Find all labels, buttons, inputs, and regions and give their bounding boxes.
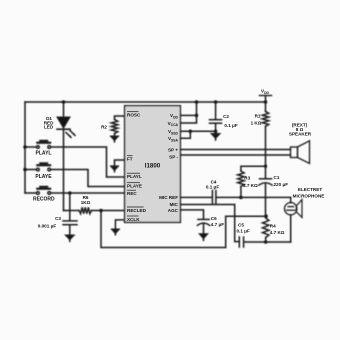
pushbutton PLAYL — [25, 140, 51, 149]
svg-text:0.1 μF: 0.1 μF — [206, 185, 219, 190]
svg-text:RECORD: RECORD — [33, 197, 55, 203]
wire XCLK to ground — [115, 220, 124, 229]
ground C2 — [212, 134, 220, 140]
svg-text:4.7 KΩ: 4.7 KΩ — [243, 183, 258, 188]
node C2 VSS junction — [214, 130, 218, 134]
svg-text:4.7 μF: 4.7 μF — [211, 222, 224, 227]
svg-text:SPEAKER: SPEAKER — [289, 131, 312, 136]
svg-text:R2: R2 — [101, 125, 107, 130]
capacitor C1 — [259, 166, 272, 216]
ground C3 — [66, 235, 74, 241]
wire bottom MIC net — [101, 211, 267, 248]
wire mic bottom riser — [290, 215, 292, 242]
resistor R1 — [262, 102, 268, 166]
svg-text:REC: REC — [127, 191, 137, 196]
wire PLAYL to pin — [51, 147, 125, 177]
svg-text:XCLK: XCLK — [127, 217, 140, 222]
svg-text:MIC: MIC — [170, 202, 179, 207]
svg-text:220 μF: 220 μF — [274, 182, 289, 187]
svg-text:C2: C2 — [223, 114, 229, 119]
node rail PLAYE — [23, 168, 27, 172]
node C2 top — [214, 100, 218, 104]
power VDD symbol — [260, 96, 272, 103]
wire MIC REF to microphone — [216, 197, 291, 202]
wire VSSD pin — [180, 130, 215, 132]
svg-text:FT: FT — [127, 157, 133, 162]
node VDD pin junction — [195, 114, 199, 118]
resistor R3 — [238, 166, 266, 197]
svg-text:PLAYL: PLAYL — [36, 151, 52, 157]
node X junction — [264, 165, 267, 168]
wire VCCA pin — [180, 115, 196, 123]
svg-text:R1: R1 — [255, 113, 261, 118]
svg-text:RECLED: RECLED — [127, 208, 147, 213]
wire MIC pin — [180, 205, 239, 242]
svg-text:SP -: SP - — [169, 154, 178, 159]
svg-text:ELECTRET: ELECTRET — [298, 187, 322, 192]
IC U1 I1800 — [125, 106, 181, 223]
wire VDD pin riser — [180, 114, 196, 116]
svg-text:C3: C3 — [55, 216, 61, 221]
wire AGC pin — [180, 210, 203, 219]
capacitor C3 — [63, 193, 77, 235]
svg-text:1KΩ: 1KΩ — [81, 200, 91, 205]
svg-text:MIC REF: MIC REF — [159, 195, 178, 200]
node R6 / RECLED junction — [99, 209, 103, 213]
wire VSSA pin — [180, 131, 190, 138]
svg-text:PLAYL: PLAYL — [127, 174, 142, 179]
ground R2 — [111, 136, 118, 142]
svg-text:AGC: AGC — [168, 208, 179, 213]
wire SP- — [180, 154, 290, 156]
svg-text:PLAYE: PLAYE — [35, 174, 52, 180]
node R4 bottom junction — [264, 240, 268, 244]
wire PLAYE to pin — [51, 170, 125, 187]
capacitor C4 — [212, 191, 216, 204]
wire left rail — [24, 102, 26, 193]
resistor R6 — [64, 207, 125, 213]
resistor R2 — [111, 116, 124, 136]
node REC / C3 junction — [68, 191, 72, 195]
wire RECORD to REC pin — [51, 192, 125, 194]
svg-text:PLAYE: PLAYE — [127, 184, 142, 189]
node R3 bottom junction — [239, 196, 243, 200]
ground C6 — [200, 234, 208, 240]
svg-text:ROSC: ROSC — [127, 113, 141, 118]
node VSSD junction — [189, 130, 193, 134]
ground FT — [111, 166, 118, 172]
node R4 top junction — [264, 214, 268, 218]
svg-text:C5: C5 — [238, 222, 244, 227]
svg-text:C1: C1 — [274, 175, 280, 180]
svg-text:1 KΩ: 1 KΩ — [251, 120, 262, 125]
svg-text:R4: R4 — [270, 223, 276, 228]
node rail PLAYL — [23, 145, 27, 149]
svg-text:MICROPHONE: MICROPHONE — [293, 193, 325, 198]
svg-text:SP +: SP + — [168, 147, 178, 152]
svg-text:I1800: I1800 — [145, 163, 161, 170]
speaker LS1 — [291, 141, 310, 164]
svg-text:4.7 KΩ: 4.7 KΩ — [270, 230, 285, 235]
LED D1 — [57, 102, 76, 211]
wire SP+ — [180, 149, 290, 151]
wire MIC REF with capacitor C4 — [180, 196, 212, 198]
node VDD riser top — [195, 100, 199, 104]
svg-text:R3: R3 — [244, 176, 250, 181]
microphone MK1 electret — [285, 200, 303, 218]
capacitor C2 — [210, 102, 222, 134]
svg-text:0.1 μF: 0.1 μF — [224, 123, 237, 128]
svg-text:LED: LED — [44, 124, 54, 129]
capacitor C6 — [197, 219, 209, 234]
node LED anode junction — [62, 100, 66, 104]
svg-text:0.001 μF: 0.001 μF — [38, 223, 57, 228]
wire C5 to mic bottom — [244, 241, 291, 243]
svg-text:0.1 μF: 0.1 μF — [237, 228, 250, 233]
ground XCLK — [112, 229, 119, 235]
pushbutton PLAYE — [25, 162, 51, 171]
wire top horizontal bus — [25, 101, 266, 103]
wire FT to ground — [115, 160, 125, 166]
capacitor C5 — [239, 237, 243, 247]
node VDD rail top — [264, 100, 268, 104]
resistor R4 — [263, 218, 269, 242]
pushbutton RECORD — [25, 186, 51, 195]
svg-text:C6: C6 — [211, 216, 217, 221]
